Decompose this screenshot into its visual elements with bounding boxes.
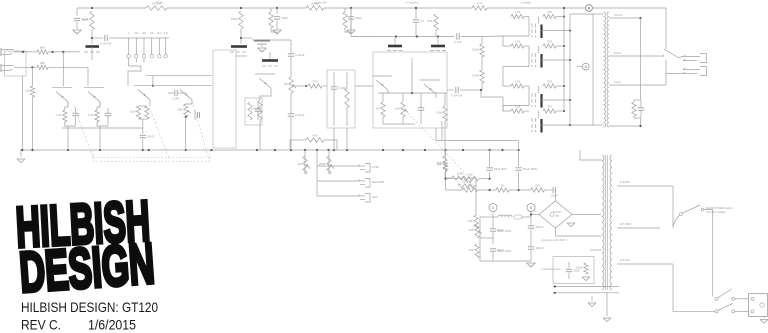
- wire r15 v2: [346, 108, 348, 126]
- wire B+ rail segment 3: [324, 7, 472, 9]
- junction V2 plate: [240, 37, 242, 39]
- svg-text:10K: 10K: [394, 107, 399, 111]
- resistor R20 82K: [427, 14, 438, 30]
- ground G6: [603, 318, 611, 322]
- plate bar V2a: [231, 45, 247, 48]
- resistor R39 bias: [576, 263, 588, 274]
- capacitor C4c 0.022: [331, 86, 346, 90]
- svg-text:0.02uF: 0.02uF: [295, 53, 305, 57]
- svg-text:LINE: LINE: [372, 165, 379, 169]
- wire zobel vert: [640, 18, 642, 100]
- wire r15 v: [346, 72, 348, 88]
- switch mains 3: [715, 304, 735, 313]
- junction ground bus x22.3: [21, 149, 23, 151]
- wire screen bus: [563, 8, 565, 111]
- wire jack2 feed: [666, 73, 683, 75]
- resistor Rg2 1.5K grid: [511, 40, 524, 49]
- wire v3 plate2: [252, 39, 291, 41]
- junction ground bus x32.4: [31, 149, 33, 151]
- coil PT secondary: [610, 155, 612, 290]
- ground G5 board: [582, 277, 590, 281]
- junction screen 3: [563, 85, 565, 87]
- resistor Rg4 1.5K grid: [511, 105, 524, 114]
- svg-text:470: 470: [547, 40, 552, 44]
- wire plate 4: [542, 124, 571, 126]
- wire c1 v2: [75, 116, 77, 126]
- svg-text:50uF 450V: 50uF 450V: [523, 167, 538, 171]
- label J8: [372, 180, 384, 184]
- junction bridge left: [530, 213, 532, 215]
- svg-text:1.5K: 1.5K: [514, 40, 520, 44]
- svg-text:10K: 10K: [468, 228, 473, 232]
- wire chain m4: [545, 189, 553, 191]
- svg-text:1.5K: 1.5K: [514, 10, 520, 14]
- label -VE bias: [541, 267, 561, 271]
- wire grid feed V1: [62, 52, 64, 86]
- shield box PI: [373, 52, 447, 128]
- wire grid 2: [524, 45, 529, 47]
- resistor R32 56K: [437, 161, 448, 170]
- wire bias bot: [480, 260, 531, 262]
- wire V2b k: [186, 102, 192, 104]
- wire chain m2: [478, 189, 496, 191]
- wire filter feed 1: [276, 8, 278, 14]
- label HT: [620, 258, 631, 262]
- wire c4 v: [333, 72, 335, 87]
- svg-text:1M: 1M: [376, 107, 381, 111]
- diode bridge D1-D4: [539, 201, 572, 228]
- junction ground bus x403: [402, 149, 404, 151]
- svg-text:(x4): (x4): [555, 215, 559, 218]
- resistor R26: [436, 156, 447, 172]
- dashed gang band bottom: [93, 160, 210, 162]
- wire pilot dn2c: [530, 250, 532, 261]
- wire bar1 feed: [394, 37, 396, 45]
- wire pt bottom gnd: [606, 292, 608, 316]
- wire J2 to R4: [14, 66, 37, 68]
- triode V4b: [420, 80, 440, 98]
- dashed gang band right: [209, 150, 211, 161]
- dashed gang band top: [93, 157, 210, 159]
- svg-text:56K: 56K: [437, 163, 442, 167]
- logo DESIGN line2: [17, 232, 156, 305]
- wire screen 2: [556, 45, 564, 47]
- wire bridge left: [531, 214, 539, 216]
- wire r10 top link: [139, 105, 147, 107]
- capacitor Cs4 bright cap: [150, 31, 155, 58]
- junction ground bus x518.6: [518, 149, 520, 151]
- wire r17 up: [402, 93, 404, 102]
- resistor Rs3 470 screen: [543, 80, 556, 89]
- wire filter gnd 1: [276, 21, 278, 29]
- coil PT primary: [602, 155, 604, 290]
- wire grid fold 3: [503, 86, 529, 106]
- wire bridge right: [572, 214, 601, 216]
- junction ground bus x211.5: [210, 149, 212, 151]
- wire grid feed V1b: [87, 67, 89, 86]
- label 5VAC: [620, 222, 632, 226]
- wire pilot dn2: [530, 212, 532, 226]
- wire nfb rail: [373, 36, 454, 38]
- capacitor Cs5 bright cap: [157, 31, 162, 58]
- jack J9 aux: [358, 194, 370, 203]
- wire cathode net a: [64, 107, 66, 110]
- junction ground bus x305: [304, 149, 306, 151]
- svg-text:4n7: 4n7: [157, 31, 162, 35]
- junction B+/R2: [240, 7, 242, 9]
- junction grid rail: [152, 85, 154, 87]
- wire c1b v: [107, 108, 109, 113]
- junction ground bus x185.7: [185, 149, 187, 151]
- capacitor C21 0.047uF: [100, 35, 111, 46]
- resistor R40 zobel: [632, 102, 636, 116]
- svg-text:REVERB: REVERB: [372, 180, 384, 184]
- svg-text:B: B: [584, 64, 587, 69]
- junction ground bus x502.5: [501, 149, 503, 151]
- resistor R21a 220K: [472, 44, 484, 57]
- resistor R38: [468, 244, 479, 258]
- jack J1 input hi: [1, 48, 14, 56]
- wire screen 1: [556, 16, 564, 18]
- node net B2: [582, 63, 589, 70]
- wire cap drop 2b: [518, 172, 520, 191]
- svg-text:4.7K: 4.7K: [476, 2, 482, 6]
- wire c6 v2: [420, 110, 422, 124]
- wire r20 dn: [435, 30, 437, 37]
- wire sw2 to inlet: [735, 298, 749, 300]
- dashed gang line 3: [405, 110, 468, 176]
- junction ground bus x148.8: [148, 149, 150, 151]
- wire c5 up: [415, 8, 417, 19]
- label bias1: [497, 229, 512, 233]
- resistor Rf2: [343, 12, 347, 28]
- svg-text:DESIGN: DESIGN: [17, 232, 156, 305]
- svg-text:47n: 47n: [134, 31, 139, 35]
- resistor R8 1.5K cathode: [55, 110, 67, 122]
- svg-text:6.3VAC: 6.3VAC: [620, 180, 631, 184]
- grid dashes V4a: [387, 50, 403, 52]
- dashed gang line 2: [192, 101, 209, 159]
- junction input node b: [51, 51, 53, 53]
- capacitor C5 0.1: [413, 19, 425, 23]
- svg-text:choke 5H: choke 5H: [314, 1, 327, 5]
- wire to PI: [355, 85, 373, 87]
- capacitor C6: [418, 108, 424, 110]
- wire heater run: [590, 249, 602, 251]
- wire R4 out: [48, 66, 88, 68]
- ground G2: [258, 48, 267, 52]
- wire screen 3: [556, 85, 564, 87]
- node B+ out: [586, 5, 593, 12]
- wire OT primary left: [592, 14, 594, 125]
- junction board row1: [554, 285, 556, 287]
- ground G8: [588, 303, 596, 307]
- junction screen 2: [563, 45, 565, 47]
- wire r24 dn: [304, 150, 306, 174]
- svg-text:0.047: 0.047: [147, 135, 155, 139]
- shield box tone: [327, 70, 355, 128]
- wire r26 up: [444, 150, 446, 156]
- wire node B2 stub: [577, 66, 582, 68]
- wire grid fold 2: [503, 46, 529, 86]
- svg-text:1.5K: 1.5K: [55, 113, 61, 117]
- svg-text:470: 470: [312, 80, 317, 84]
- rev text: [21, 317, 61, 333]
- wire fold 3 link: [502, 106, 504, 112]
- resistor R12 1.5K: [251, 100, 263, 120]
- junction screen rail: [91, 37, 93, 39]
- resistor R24 pot: [298, 156, 310, 174]
- capacitor Cf1 20uF: [274, 16, 288, 20]
- wire C20 feed: [76, 8, 78, 16]
- svg-text:220K: 220K: [576, 266, 583, 270]
- screen stub V8: [538, 111, 540, 118]
- wire C20 to ground: [76, 22, 78, 29]
- switch mains power: [680, 205, 704, 215]
- svg-text:68K: 68K: [40, 46, 45, 50]
- wire plate to OT top: [570, 13, 593, 15]
- capacitor Cs1 bright cap: [127, 31, 130, 63]
- wire r17 dn: [402, 117, 404, 124]
- junction zobel bot: [639, 125, 641, 127]
- wire jack wire 2: [317, 180, 358, 182]
- wire couple1b: [460, 89, 481, 91]
- resistor R27: [452, 172, 468, 181]
- wire V1b k lead: [97, 102, 100, 107]
- capacitor C2b 0.047: [140, 135, 155, 139]
- capacitor Cf2 20uF: [348, 16, 362, 20]
- wire jack sleeve down: [21, 76, 23, 150]
- junction B+ filter 3: [415, 7, 417, 9]
- svg-text:820: 820: [130, 110, 135, 114]
- wire pt right 2: [617, 227, 660, 229]
- grid dashes V6 power tube: [532, 53, 536, 67]
- wire dropper top: [445, 150, 447, 161]
- junction ground bus x68: [67, 149, 69, 151]
- wire v3 k: [260, 92, 271, 100]
- plate bar V5 power tube: [540, 25, 542, 39]
- junction input node d: [31, 66, 33, 68]
- capacitor C22 lower plate: [257, 43, 267, 45]
- node net A: [586, 5, 593, 12]
- resistor R4 68K: [37, 61, 48, 70]
- core PT: [606, 155, 608, 290]
- wire coil l: [493, 216, 498, 218]
- wire v3 plate stub: [269, 52, 271, 59]
- resistor Rf1: [269, 12, 273, 28]
- wire chain m3: [509, 189, 531, 191]
- resistor R10b 820: [145, 106, 149, 119]
- svg-text:+VE power (DO NOT...): +VE power (DO NOT...): [541, 238, 568, 242]
- wire pt left top: [580, 150, 602, 160]
- coil OT primary: [604, 12, 606, 127]
- wire pt vert right: [672, 186, 674, 228]
- junction c5 rail: [415, 7, 417, 9]
- resistor R10 820: [130, 106, 140, 119]
- svg-text:0.02uF: 0.02uF: [295, 113, 305, 117]
- junction ground bus x328.5: [327, 149, 329, 151]
- svg-text:HT 350V: HT 350V: [620, 222, 632, 226]
- ground Gf2: [347, 30, 356, 34]
- wire bias bus drop: [435, 128, 437, 141]
- triode V1b: [84, 88, 104, 106]
- wire vol rail mid: [290, 57, 292, 77]
- junction dropper: [444, 178, 446, 180]
- screen stub V5: [538, 17, 540, 24]
- svg-text:1M: 1M: [25, 89, 30, 93]
- plate bar V4b PI: [431, 45, 445, 48]
- connector AC inlet: [749, 294, 768, 317]
- wire tone in: [322, 85, 327, 87]
- wire plate 1: [542, 30, 571, 32]
- resistor R37 bias pot: [468, 224, 482, 238]
- wire jack wire 3: [317, 195, 358, 197]
- svg-text:100K: 100K: [456, 172, 463, 176]
- svg-text:100K: 100K: [231, 17, 238, 21]
- wire OT tap 16ohm: [609, 17, 641, 19]
- wire grid feed 4: [503, 97, 511, 111]
- junction B+ filter 2: [350, 7, 352, 9]
- wire cap drop 1: [489, 150, 491, 167]
- capacitor C1b 25uF: [105, 113, 111, 115]
- wire jack wire 1: [317, 165, 358, 167]
- wire mains sw feed: [673, 215, 680, 226]
- label 16 ohm: [614, 13, 623, 17]
- wire plate bus: [569, 14, 571, 125]
- resistor R3 68K: [37, 46, 48, 55]
- capacitor C16 100uF: [528, 246, 544, 250]
- wire pt right 3: [617, 263, 673, 265]
- wire screen 4: [556, 110, 564, 112]
- wire grid rail upper: [146, 75, 212, 77]
- svg-text:16 ohm: 16 ohm: [614, 13, 623, 17]
- triode V4a: [372, 76, 392, 94]
- capacitor C9: [490, 248, 504, 252]
- coil bias L2: [498, 215, 512, 217]
- logo HILBISH line1: [14, 189, 151, 260]
- wire c8 dn: [492, 232, 494, 244]
- label bias2: [497, 249, 512, 253]
- wire v3 k2: [259, 120, 261, 150]
- junction screen rail: [563, 7, 565, 9]
- capacitor C10 bias: [566, 269, 580, 273]
- wire grid rail lower: [154, 85, 212, 87]
- svg-text:0.047uF: 0.047uF: [451, 94, 462, 98]
- wire bias left: [480, 216, 493, 218]
- svg-text:220: 220: [535, 184, 540, 188]
- junction ground bus x334: [333, 149, 335, 151]
- resistor R30 5W: [146, 2, 167, 11]
- capacitor C1 25uF: [72, 113, 78, 115]
- wire c3 right: [178, 92, 186, 94]
- grid dashes V3a: [262, 65, 278, 67]
- wire grid 4: [524, 110, 529, 112]
- svg-text:470: 470: [547, 10, 552, 14]
- capacitor C15 100uF: [528, 225, 544, 229]
- junction couple: [480, 89, 482, 91]
- junction plate 1: [569, 29, 571, 31]
- date text: [88, 317, 136, 333]
- wire cap drop 1b: [489, 172, 491, 179]
- junction pi tail: [411, 92, 413, 94]
- wire inlet gnd: [763, 316, 765, 318]
- wire r19 dn: [441, 121, 443, 141]
- wire screen drop: [481, 37, 483, 45]
- svg-text:0.1: 0.1: [420, 19, 425, 23]
- svg-text:8 ohm: 8 ohm: [614, 51, 621, 55]
- capacitor C3 0.047: [172, 90, 180, 101]
- shield box V2: [213, 50, 236, 148]
- svg-text:100uF: 100uF: [535, 225, 544, 229]
- wire rf link 1: [270, 8, 272, 12]
- wire couple1c: [481, 90, 503, 97]
- wire jack feed: [678, 57, 683, 58]
- wire bias left dn: [479, 217, 481, 261]
- wire bias bus: [436, 140, 518, 142]
- resistor Rg1 1.5K grid: [511, 10, 524, 19]
- svg-text:1.5K: 1.5K: [514, 80, 520, 84]
- svg-text:1K: 1K: [501, 184, 505, 188]
- wire screen drop mid: [481, 57, 483, 70]
- resistor R35 1K: [496, 184, 509, 193]
- wire nfb rail2: [461, 36, 482, 38]
- junction pi b: [416, 35, 418, 37]
- junction ground bus x100: [99, 149, 101, 151]
- svg-text:100K: 100K: [82, 18, 89, 22]
- svg-text:470: 470: [547, 80, 552, 84]
- svg-text:1.5K: 1.5K: [88, 113, 94, 117]
- wire rf link 2: [344, 8, 346, 12]
- wire plate 3: [542, 99, 571, 101]
- wire r23 drop: [289, 140, 291, 150]
- junction zobel top: [639, 17, 641, 19]
- wire cathode bot a: [65, 122, 76, 126]
- capacitor C7 25uF: [551, 187, 558, 198]
- junction pi a: [395, 35, 397, 37]
- wire r19 up: [444, 93, 446, 106]
- title text: [21, 299, 158, 315]
- shield box inputs: [5, 51, 26, 76]
- resistor R36: [531, 184, 545, 193]
- svg-text:ON-OFF breaker: ON-OFF breaker: [706, 210, 726, 214]
- capacitor C4b 0.02uF: [288, 113, 305, 117]
- svg-text:100uF: 100uF: [535, 246, 544, 250]
- wire c9 dn: [492, 252, 494, 261]
- wire c8 up: [492, 222, 494, 228]
- wire bar2 feed: [437, 37, 439, 45]
- junction plate 3: [569, 99, 571, 101]
- shield box C11: [245, 98, 262, 125]
- wire vol rail top: [290, 40, 292, 53]
- junction chain b: [518, 189, 520, 191]
- wire c1 v: [75, 108, 77, 113]
- wire zobel bot: [634, 117, 641, 119]
- wire chain row: [446, 189, 463, 191]
- svg-text:1/6/2015: 1/6/2015: [88, 317, 136, 333]
- resistor R23 470: [306, 134, 324, 143]
- jack J5 speaker out: [683, 54, 707, 63]
- wire OT prim stub bot: [593, 124, 604, 126]
- wire v2b k dn: [185, 117, 187, 150]
- wire c11 v2: [257, 111, 259, 120]
- capacitor Cs3 bright cap: [142, 31, 147, 63]
- wire screen rail a: [92, 37, 103, 39]
- svg-text:220K: 220K: [472, 48, 479, 52]
- resistor R1 100K: [82, 11, 94, 30]
- junction B+/R1: [91, 7, 93, 9]
- svg-text:470: 470: [547, 105, 552, 109]
- wire neutral run: [673, 264, 715, 311]
